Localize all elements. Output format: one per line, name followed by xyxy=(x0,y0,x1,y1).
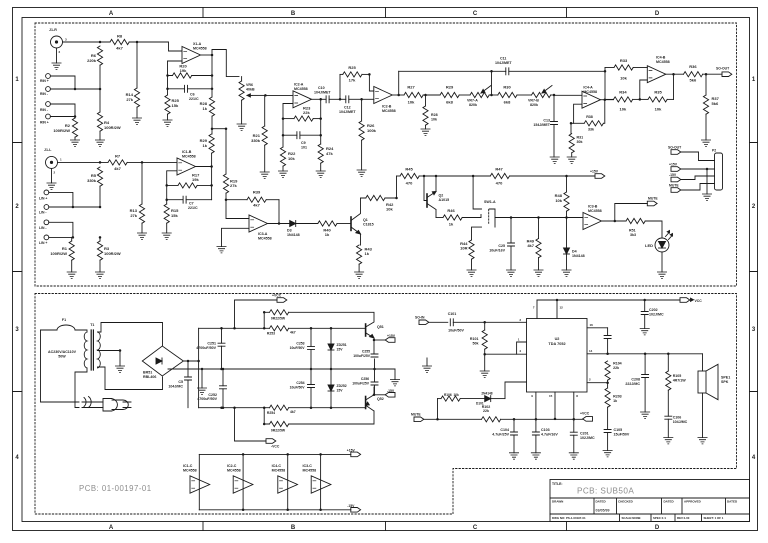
title block row lines xyxy=(550,498,750,514)
svg-text:100R/2W: 100R/2W xyxy=(104,125,121,130)
svg-text:C105: C105 xyxy=(614,428,623,432)
resistor R27 xyxy=(404,85,440,105)
svg-text:DATED: DATED xyxy=(664,500,675,504)
svg-text:15V: 15V xyxy=(337,388,344,392)
op-amp IC3-A xyxy=(249,215,272,241)
svg-text:C25: C25 xyxy=(498,244,505,248)
svg-text:222J/MC: 222J/MC xyxy=(625,382,640,386)
connector J1-L xyxy=(44,148,62,175)
resistor R29 sum xyxy=(200,134,215,167)
wire primary bottom xyxy=(75,368,87,408)
svg-text:R27: R27 xyxy=(407,85,415,90)
svg-text:1N4148: 1N4148 xyxy=(287,233,300,237)
svg-text:19k: 19k xyxy=(192,177,199,182)
svg-text:1N4148: 1N4148 xyxy=(572,254,585,258)
title block DATED 2 xyxy=(664,500,675,504)
capacitor C201 xyxy=(570,419,595,453)
wire R7 node down xyxy=(141,162,143,204)
capacitor C204 xyxy=(604,328,611,354)
grid label 3 right xyxy=(752,327,756,333)
svg-text:100R/2W: 100R/2W xyxy=(104,251,121,256)
capacitor C101 xyxy=(448,312,527,333)
wire R19 column xyxy=(225,127,228,174)
resistor R37 xyxy=(703,74,719,140)
ground of C202 xyxy=(640,329,649,335)
wire positive top rail xyxy=(199,327,270,330)
pin 14 wire xyxy=(587,349,703,355)
svg-text:R7: R7 xyxy=(115,154,121,159)
wire main left column xyxy=(198,328,200,407)
wire R8 to X1-A xyxy=(129,41,182,51)
op-amp IC1-B xyxy=(177,150,196,175)
wire IC1-B minus input xyxy=(167,171,177,186)
svg-text:R35: R35 xyxy=(654,90,662,95)
svg-text:3: 3 xyxy=(519,318,521,322)
grid label 4 left xyxy=(15,455,19,461)
svg-text:C: C xyxy=(473,525,478,531)
svg-text:D: D xyxy=(655,11,660,17)
svg-text:22k: 22k xyxy=(303,110,310,115)
svg-text:R45: R45 xyxy=(405,167,413,172)
connector tag +15V supply row xyxy=(590,170,605,179)
svg-text:4: 4 xyxy=(519,349,521,353)
svg-text:4.7uF/16V: 4.7uF/16V xyxy=(541,433,558,437)
capacitor C105 xyxy=(604,428,630,451)
grid label 2 right xyxy=(752,204,756,210)
op-amp IC2-C xyxy=(227,464,253,493)
ground of secondary tap xyxy=(115,366,124,372)
svg-text:3: 3 xyxy=(15,327,19,333)
ground of C103 xyxy=(531,453,540,459)
svg-text:15: 15 xyxy=(549,394,553,398)
resistor R23 xyxy=(282,106,322,122)
ground of R3 xyxy=(95,272,104,278)
title block APPROVED xyxy=(684,500,702,504)
svg-text:220k: 220k xyxy=(87,58,97,63)
wire R39 bypass down xyxy=(278,200,281,225)
svg-text:3: 3 xyxy=(65,38,67,42)
connector tag +15V out xyxy=(374,334,396,342)
wire R101 to pin4 xyxy=(485,353,527,355)
ground of R43 xyxy=(355,272,364,278)
grid label C bottom xyxy=(473,525,478,531)
capacitor C254 xyxy=(290,369,315,409)
op-amp IC1-C xyxy=(183,464,210,493)
grid label 2 left xyxy=(15,204,19,210)
svg-text:10k: 10k xyxy=(431,118,437,122)
svg-text:X1-A: X1-A xyxy=(193,42,202,46)
connector tag -15V to P2 xyxy=(669,173,715,182)
connector RIN pair 1 xyxy=(40,74,101,96)
svg-text:22k: 22k xyxy=(613,366,619,370)
connector tag -15V buffers xyxy=(347,504,360,512)
wire R42 up to R45 xyxy=(396,176,398,198)
capacitor C253 xyxy=(290,327,315,369)
svg-text:221/C: 221/C xyxy=(188,206,198,210)
ground of R44 xyxy=(467,270,476,276)
svg-text:RIN +: RIN + xyxy=(40,79,49,83)
svg-text:R34: R34 xyxy=(619,90,627,95)
capacitor C12 xyxy=(339,96,362,114)
connector LIN pair 2 xyxy=(39,220,74,245)
svg-text:10k: 10k xyxy=(288,156,295,161)
connector tag SO-IN xyxy=(415,316,448,325)
svg-text:D101: D101 xyxy=(476,402,484,406)
PCB part number text xyxy=(79,484,152,493)
svg-text:1k: 1k xyxy=(449,222,454,227)
ground of speaker xyxy=(698,438,707,444)
grid label A top xyxy=(109,11,114,17)
svg-text:4700uF/50V: 4700uF/50V xyxy=(196,346,216,350)
buffer top rail xyxy=(199,453,350,456)
resistor R47 xyxy=(424,167,595,186)
svg-text:6k8: 6k8 xyxy=(446,100,453,105)
svg-text:+15V: +15V xyxy=(590,170,599,174)
svg-text:17k: 17k xyxy=(349,78,356,83)
ground of R49 xyxy=(534,270,543,276)
svg-text:SPK: SPK xyxy=(721,380,729,384)
resistor R101 xyxy=(470,322,487,355)
svg-text:U2: U2 xyxy=(555,337,560,341)
ground of R2 xyxy=(70,140,79,146)
ground of R31 xyxy=(567,157,576,163)
resistor R42 xyxy=(361,195,398,211)
svg-text:8: 8 xyxy=(576,394,578,398)
svg-text:AC230V/AC110V: AC230V/AC110V xyxy=(48,350,77,354)
resistor R49 xyxy=(527,218,541,271)
title block SPEC xyxy=(653,516,666,520)
wire X1-A plus input xyxy=(168,61,183,76)
svg-text:+VCC: +VCC xyxy=(272,293,282,297)
connector tag MUTE top xyxy=(647,197,658,206)
wire IC3-A output xyxy=(268,223,290,225)
resistor R33 xyxy=(605,58,647,81)
capacitor C208 xyxy=(625,354,648,412)
wire D101 to IC xyxy=(505,382,527,399)
svg-text:SW1-A: SW1-A xyxy=(484,200,496,204)
svg-text:PCB: SUB50A: PCB: SUB50A xyxy=(577,487,634,496)
svg-text:Q1: Q1 xyxy=(363,218,368,222)
resistor R48 xyxy=(555,176,569,218)
svg-text:IC1-C: IC1-C xyxy=(183,464,193,468)
svg-text:RIN +: RIN + xyxy=(40,121,49,125)
svg-text:IC4-B: IC4-B xyxy=(656,56,666,60)
svg-text:LIN +: LIN + xyxy=(39,241,47,245)
right margin ticks xyxy=(750,143,758,392)
svg-text:1: 1 xyxy=(518,338,520,342)
svg-text:IC2-B: IC2-B xyxy=(382,105,392,109)
op-amp IC4-A xyxy=(582,86,601,109)
capacitor C11 top xyxy=(397,57,605,97)
svg-text:5k6: 5k6 xyxy=(712,101,719,106)
resistor R106 xyxy=(438,393,485,401)
svg-text:4k7: 4k7 xyxy=(290,331,296,335)
svg-text:DATED: DATED xyxy=(727,500,738,504)
capacitor C256 xyxy=(352,369,378,395)
ground of R15 xyxy=(162,233,171,239)
resistor R22 xyxy=(280,147,296,171)
power cord xyxy=(82,397,103,408)
svg-text:104J/MC: 104J/MC xyxy=(168,384,183,388)
svg-text:C101: C101 xyxy=(448,312,457,316)
connector tag MUTE amp xyxy=(411,413,482,422)
resistor R14 xyxy=(126,88,140,118)
wire bridge output xyxy=(183,360,199,363)
svg-text:10k: 10k xyxy=(620,76,627,81)
svg-text:1: 1 xyxy=(15,77,19,83)
capacitor C104 xyxy=(492,419,517,453)
resistor R36 xyxy=(684,64,723,83)
svg-text:B: B xyxy=(291,525,296,531)
title block SCALE xyxy=(622,516,641,520)
svg-text:BR51: BR51 xyxy=(143,371,152,375)
svg-text:10R: 10R xyxy=(460,246,467,251)
resistor R15 xyxy=(164,204,179,233)
svg-text:B: B xyxy=(291,11,296,17)
svg-text:1k: 1k xyxy=(203,143,208,148)
resistor R13 xyxy=(130,204,145,233)
pin 2 wire xyxy=(587,378,608,383)
svg-text:100k: 100k xyxy=(367,128,377,133)
wire LED to ground xyxy=(661,252,663,272)
svg-text:R28: R28 xyxy=(431,113,438,117)
svg-text:2: 2 xyxy=(54,171,56,175)
resistor R6 xyxy=(87,46,103,89)
transistor Q2 xyxy=(427,175,449,218)
svg-text:C251: C251 xyxy=(207,342,216,346)
transformer T1 xyxy=(84,323,100,370)
transformer labels xyxy=(48,350,77,359)
capacitor C6 xyxy=(166,85,212,101)
connector tag +15V buffers xyxy=(347,449,361,457)
ground of IC3-A plus xyxy=(217,247,226,253)
capacitor C251 xyxy=(196,328,225,369)
svg-text:15k: 15k xyxy=(171,213,178,218)
wire mid column x605 xyxy=(604,68,607,100)
wire IC2-A minus input xyxy=(283,104,293,119)
transistor Q1 xyxy=(351,198,374,245)
title block DRAWN xyxy=(552,500,563,504)
svg-text:1: 1 xyxy=(60,158,62,162)
title block SHEET xyxy=(704,516,724,520)
ground of R26 xyxy=(357,170,366,176)
svg-text:10uF/50V: 10uF/50V xyxy=(448,329,464,333)
transistor Q52 xyxy=(289,387,384,424)
connector tag +VCC supply xyxy=(233,293,287,329)
connector tag SO-OUT xyxy=(716,67,732,77)
wire mute sub column xyxy=(437,399,439,420)
wire J1-R to R8 xyxy=(63,41,111,44)
ground of R22 xyxy=(278,171,287,177)
svg-text:104J/MET: 104J/MET xyxy=(314,90,331,94)
diode D4 xyxy=(564,218,585,271)
svg-text:10k: 10k xyxy=(408,100,415,105)
resistor R1 xyxy=(50,237,74,272)
resistor R253 in rail xyxy=(267,326,366,336)
ground of C208 xyxy=(641,412,650,418)
connector tag -VCC supply xyxy=(233,406,280,448)
svg-text:SO-IN: SO-IN xyxy=(415,316,425,320)
wire IC2-A feedback left column xyxy=(282,119,284,147)
svg-text:PCB: 01-00197-01: PCB: 01-00197-01 xyxy=(79,484,152,493)
wire IC4-A output xyxy=(601,98,614,101)
potentiometer VR7-B xyxy=(528,86,555,107)
ground of J1-L xyxy=(47,168,56,189)
op-amp IC2-A xyxy=(293,83,312,108)
wire speaker to ground xyxy=(702,393,704,438)
svg-text:DWG NO: PS-1-00197-01: DWG NO: PS-1-00197-01 xyxy=(552,516,586,520)
svg-text:MC4558: MC4558 xyxy=(227,469,241,473)
svg-text:P2: P2 xyxy=(712,149,716,153)
wire VR7-A tap up xyxy=(491,71,493,95)
svg-text:Q51: Q51 xyxy=(377,325,384,329)
svg-text:RBL406: RBL406 xyxy=(143,375,156,379)
svg-text:1k: 1k xyxy=(613,399,617,403)
svg-text:30k: 30k xyxy=(577,140,583,144)
resistor R20 xyxy=(166,64,212,79)
svg-text:F1: F1 xyxy=(62,318,66,322)
wire IC1-B feedback right column xyxy=(211,167,213,200)
ground floating near tags xyxy=(422,358,431,372)
svg-text:LIN -: LIN - xyxy=(39,226,47,230)
svg-text:10uF/50V: 10uF/50V xyxy=(290,346,306,350)
title block outline xyxy=(550,480,750,522)
wire IC1-B output xyxy=(196,165,213,168)
resistor R21 xyxy=(251,126,267,172)
wire secondary bottom xyxy=(98,367,163,390)
svg-text:C7: C7 xyxy=(189,202,194,206)
wire IC3-A minus input xyxy=(226,200,249,219)
svg-text:MUTE: MUTE xyxy=(648,197,658,201)
svg-text:100R/2W: 100R/2W xyxy=(53,128,70,133)
resistor R102 mute row xyxy=(482,405,583,422)
svg-text:27k: 27k xyxy=(130,213,137,218)
title block DATED 3 xyxy=(727,500,738,504)
svg-text:C253: C253 xyxy=(296,342,304,346)
fuse F1 xyxy=(41,318,88,402)
ground of C201 xyxy=(569,453,578,459)
svg-text:330k: 330k xyxy=(87,178,97,183)
ground of C105 xyxy=(603,451,612,457)
wire secondary top xyxy=(98,323,163,346)
ground of mid rail left xyxy=(197,369,206,394)
wire R21 column xyxy=(264,95,266,126)
speaker SPK1 xyxy=(698,354,730,400)
svg-text:C252: C252 xyxy=(208,393,217,397)
svg-text:10k: 10k xyxy=(620,107,627,112)
svg-text:9: 9 xyxy=(531,394,533,398)
svg-text:A: A xyxy=(109,11,114,17)
resistor R43 xyxy=(357,245,373,272)
svg-text:16: 16 xyxy=(590,323,594,327)
svg-text:22k: 22k xyxy=(483,409,489,413)
capacitor C5 xyxy=(168,361,191,408)
svg-text:C104: C104 xyxy=(500,428,509,432)
grid label D top xyxy=(655,11,660,17)
buffer bottom rail xyxy=(199,509,350,512)
resistor R38 xyxy=(571,100,605,132)
capacitor C202 xyxy=(641,300,664,329)
svg-text:LED: LED xyxy=(645,243,653,248)
svg-text:MC4558: MC4558 xyxy=(258,237,272,241)
svg-text:6k8: 6k8 xyxy=(504,100,511,105)
grid label B top xyxy=(291,11,296,17)
svg-text:MC4558: MC4558 xyxy=(182,155,196,159)
wire P2 ground branch xyxy=(706,168,709,194)
ground of R24 xyxy=(316,171,325,177)
wire IC2-A feedback right column xyxy=(320,99,322,135)
wire J1-L to R7 xyxy=(58,161,109,164)
svg-text:IC2-A: IC2-A xyxy=(294,83,304,87)
op-amp X1-A xyxy=(182,42,207,64)
grid label 1 left xyxy=(15,77,19,83)
svg-text:R38: R38 xyxy=(586,115,593,119)
svg-text:T1: T1 xyxy=(90,323,94,327)
wire C10 C12 node xyxy=(339,74,342,100)
svg-text:R105: R105 xyxy=(673,374,682,378)
wire VR7-B to IC4-A xyxy=(554,94,582,96)
capacitor C13 xyxy=(533,95,557,127)
svg-text:A: A xyxy=(109,525,114,531)
svg-text:15uF/50V: 15uF/50V xyxy=(614,432,630,436)
capacitor C106 xyxy=(665,416,688,438)
op-amp IC3-C xyxy=(303,464,331,493)
svg-text:0R22/5W: 0R22/5W xyxy=(271,429,286,433)
svg-text:10k: 10k xyxy=(454,393,460,397)
wire R25 to IC2-B plus xyxy=(368,73,374,91)
IC U2 TDA7052 xyxy=(527,319,588,393)
svg-text:4k7: 4k7 xyxy=(116,46,123,51)
title block PCB: SUB50A xyxy=(577,487,634,496)
resistor R46 xyxy=(436,208,481,227)
ground of R37 xyxy=(701,140,710,146)
resistor R5 xyxy=(87,167,103,207)
svg-text:470: 470 xyxy=(406,181,413,186)
svg-text:RIN -: RIN - xyxy=(40,92,48,96)
bottom margin ticks xyxy=(203,522,567,531)
svg-text:MC4558: MC4558 xyxy=(583,90,597,94)
svg-text:4k7: 4k7 xyxy=(114,166,121,171)
zener ZD251 xyxy=(328,327,347,369)
svg-text:C201: C201 xyxy=(580,432,589,436)
dashed boundary upper block xyxy=(35,23,737,286)
wire X1-A feedback right xyxy=(211,55,214,97)
potentiometer VR7-A xyxy=(467,86,498,107)
svg-text:R51: R51 xyxy=(629,229,636,233)
svg-text:R106: R106 xyxy=(444,393,452,397)
svg-text:4k7: 4k7 xyxy=(527,243,534,248)
svg-text:SCALE:NONE: SCALE:NONE xyxy=(622,516,641,520)
wire Q51 emitter column xyxy=(373,338,376,354)
svg-text:4k7: 4k7 xyxy=(253,203,260,208)
ground of R21 xyxy=(260,172,269,178)
svg-text:330k: 330k xyxy=(251,138,261,143)
svg-text:R8: R8 xyxy=(117,34,123,39)
svg-text:7: 7 xyxy=(533,306,535,310)
svg-text:104J/MC: 104J/MC xyxy=(673,420,688,424)
svg-text:-15V: -15V xyxy=(669,173,677,177)
grid label 3 left xyxy=(15,327,19,333)
title block TITLE label xyxy=(552,482,563,486)
ground of mid rail right end xyxy=(390,369,399,386)
svg-text:14: 14 xyxy=(589,349,593,353)
title block CHECKED xyxy=(618,500,634,504)
wire R28 to R19 column xyxy=(212,128,226,130)
LED LED1 xyxy=(645,231,673,253)
ground of C25 xyxy=(506,270,515,276)
wire zero mid rail xyxy=(168,368,395,371)
svg-text:D: D xyxy=(655,525,660,531)
